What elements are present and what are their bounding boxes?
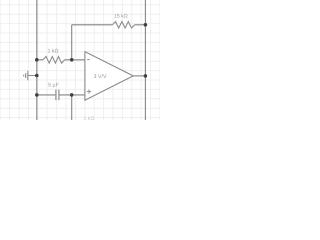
wire: left vertical net x=36.8 top to bottom	[36, 0, 38, 120]
svg-text:3 V/V: 3 V/V	[94, 74, 107, 80]
wire: output vertical net x=145.4 top to bottom	[144, 0, 146, 120]
wire: noninverting input segment right	[60, 94, 85, 96]
svg-text:1 kΩ: 1 kΩ	[84, 116, 95, 120]
op-amp plus pin label	[87, 89, 91, 93]
wire: x=71.7 from noninverting input node down off-page	[71, 95, 73, 120]
wire: feedback vertical x=71.7 from top rail to inverting input	[71, 25, 73, 60]
junction node dots	[35, 23, 147, 97]
resistor R2 15 kΩ zigzag	[112, 22, 134, 28]
svg-text:5 µF: 5 µF	[48, 83, 59, 89]
wire: top rail left segment	[72, 24, 113, 26]
capacitor C1 5 µF plates	[56, 90, 59, 101]
svg-text:1 kΩ: 1 kΩ	[47, 49, 58, 55]
op-amp U1 triangle	[85, 52, 133, 101]
wire: inverting input segment left	[37, 59, 43, 61]
wire: op-amp output to node	[133, 75, 145, 77]
ground symbol	[24, 71, 37, 81]
svg-text:15 kΩ: 15 kΩ	[114, 14, 128, 20]
wire: noninverting input segment left	[37, 94, 56, 96]
wire: top rail right segment	[135, 24, 146, 26]
resistor R1 1 kΩ zigzag	[43, 57, 65, 64]
op-amp minus pin label	[87, 59, 90, 61]
wire: inverting input segment right	[65, 59, 85, 61]
grid	[0, 0, 160, 120]
